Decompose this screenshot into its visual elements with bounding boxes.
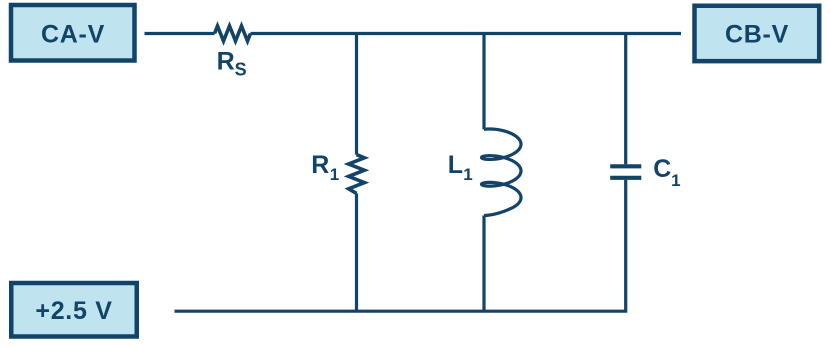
svg-text:CA-V: CA-V — [41, 21, 105, 49]
svg-text:L1: L1 — [448, 151, 473, 184]
svg-text:+2.5 V: +2.5 V — [35, 297, 112, 325]
svg-text:C1: C1 — [653, 155, 680, 190]
svg-text:R1: R1 — [311, 151, 339, 184]
svg-text:RS: RS — [217, 48, 247, 80]
svg-text:CB-V: CB-V — [725, 21, 789, 49]
